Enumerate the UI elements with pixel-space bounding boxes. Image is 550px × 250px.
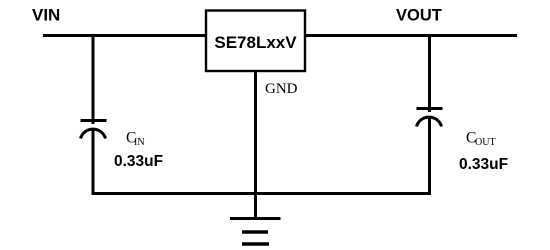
svg-text:IN: IN (134, 137, 145, 148)
svg-text:GND: GND (265, 81, 298, 97)
svg-text:SE78LxxV: SE78LxxV (214, 33, 297, 52)
svg-text:0.33uF: 0.33uF (459, 156, 508, 173)
svg-text:VIN: VIN (32, 5, 60, 24)
svg-text:OUT: OUT (475, 137, 496, 148)
svg-text:0.33uF: 0.33uF (114, 153, 163, 170)
svg-text:VOUT: VOUT (396, 7, 442, 25)
